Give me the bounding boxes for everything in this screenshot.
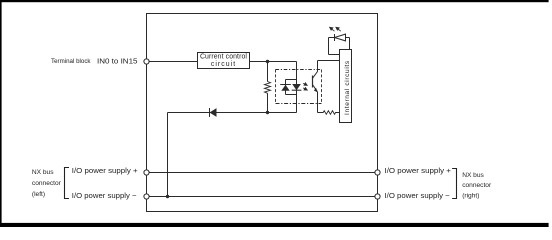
svg-text:NX bus: NX bus xyxy=(32,169,54,176)
svg-text:I/O power supply −: I/O power supply − xyxy=(72,191,137,200)
svg-text:(left): (left) xyxy=(32,191,45,198)
svg-text:(right): (right) xyxy=(462,192,479,199)
svg-text:connector: connector xyxy=(462,182,492,189)
svg-text:Terminal block: Terminal block xyxy=(51,58,91,65)
svg-text:I/O power supply −: I/O power supply − xyxy=(385,191,451,200)
svg-text:I/O power supply +: I/O power supply + xyxy=(72,166,138,175)
svg-text:Current control: Current control xyxy=(200,54,247,61)
svg-text:NX bus: NX bus xyxy=(462,172,484,179)
svg-text:circuit: circuit xyxy=(211,61,236,68)
svg-text:Internal circuits: Internal circuits xyxy=(344,60,351,115)
svg-text:I/O power supply +: I/O power supply + xyxy=(385,166,452,175)
svg-text:IN0 to IN15: IN0 to IN15 xyxy=(97,56,138,65)
svg-text:connector: connector xyxy=(32,180,62,187)
